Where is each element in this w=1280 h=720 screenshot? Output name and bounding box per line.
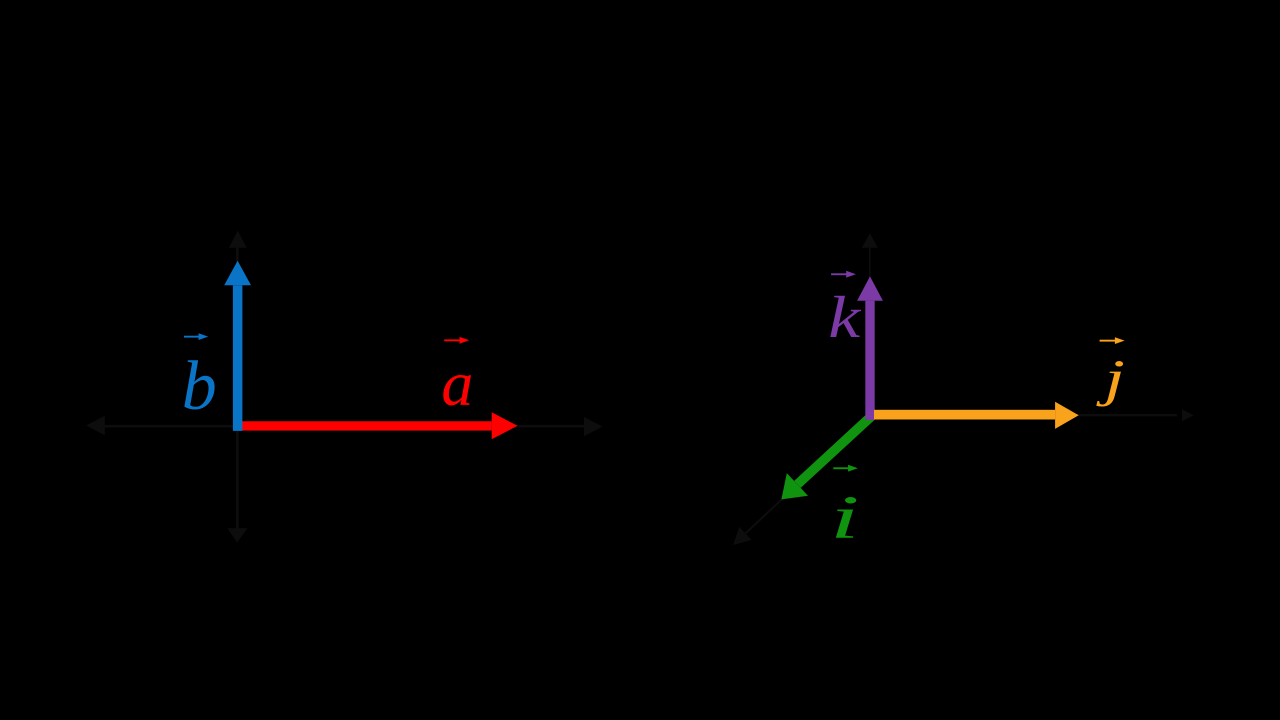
svg-text:i: i [830,483,860,550]
accent arrow over i [833,465,858,472]
diagonal axis line (dark) [746,416,871,534]
x-axis left arrowhead [86,416,105,435]
right 3D axes (dark) [862,233,1194,421]
svg-text:a: a [441,348,473,419]
svg-text:b: b [182,348,217,425]
vector i (green) [781,416,871,499]
vector b (blue) [224,261,251,431]
horizontal axis line [871,414,1177,416]
accent arrow over a [444,337,469,344]
x-axis right arrowhead [584,417,603,436]
horizontal axis arrowhead [1182,409,1194,421]
y-axis line [236,246,239,530]
x-axis line [100,425,588,428]
vector j (orange) [874,402,1079,429]
accent arrow over k [831,271,856,278]
left 2D axes (dark) [86,231,602,543]
accent arrow over j [1100,337,1125,344]
diagonal axis arrowhead [733,527,752,545]
vertical axis line [869,247,871,416]
vector k (purple) [857,276,883,420]
vector a (red) [238,412,518,439]
svg-text:k: k [828,285,862,350]
y-axis bottom arrowhead [228,528,248,542]
vertical axis arrowhead [862,233,878,248]
y-axis top arrowhead [229,231,247,248]
accent arrow over b [184,333,208,340]
